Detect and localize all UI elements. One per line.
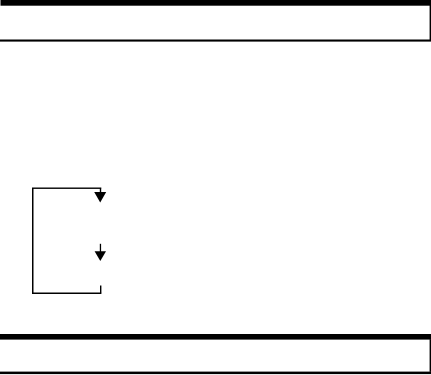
bottom footer thick rule (0, 334, 431, 340)
wire: loop bottom horizontal (32, 293, 101, 295)
wire: stub up from loop bottom (100, 286, 101, 294)
wire: stub into arrow 1 (100, 188, 101, 193)
top header thin rule (0, 40, 431, 42)
top header thick rule (1, 0, 431, 6)
right header border (430, 6, 431, 41)
arrowhead 1 (down) (94, 192, 106, 203)
wire: arrow 2 stem (100, 244, 101, 252)
right footer border (430, 340, 431, 372)
wire: loop left vertical (32, 188, 34, 294)
wire: loop top horizontal (32, 188, 101, 189)
bottom footer thin rule (0, 372, 431, 375)
arrowhead 2 (down) (95, 251, 106, 261)
